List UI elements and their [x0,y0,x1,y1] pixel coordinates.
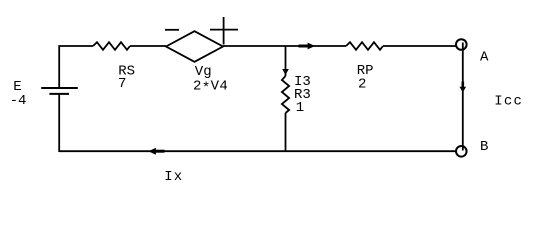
minus polarity mark [165,29,179,31]
svg-text:-4: -4 [10,93,27,109]
value 1 [296,100,304,116]
current arrow on top wire [299,43,316,50]
current arrow Ix [148,148,164,155]
wire Vg to RP [223,45,346,47]
plus polarity mark [210,17,238,45]
label I3 [294,74,311,90]
label Ix [164,169,183,185]
battery E short plate [49,93,69,95]
value 2*V4 [193,78,228,96]
dependent source Vg (diamond) [166,31,223,62]
resistor RS [93,42,130,50]
svg-text:1: 1 [296,100,304,116]
wire RS to dependent source Vg [130,45,166,47]
label RS [118,64,135,80]
bottom wire [59,150,455,152]
wire top-left from battery up and right to RS [59,46,93,88]
current arrow Icc [460,82,467,93]
value -4 [10,93,27,109]
wire terminal A to terminal B [462,43,464,151]
svg-text:2: 2 [358,76,366,92]
svg-text:A: A [480,50,489,66]
value 2 [358,76,366,92]
label RP [357,63,374,79]
wire R3 to bottom [285,113,287,152]
resistor R3 [282,76,289,113]
label R3 [294,87,311,103]
svg-text:Icc: Icc [494,93,523,109]
wire node to R3 branch [285,46,287,76]
svg-text:Ix: Ix [164,169,183,185]
terminal A [456,39,467,50]
terminal B [456,146,467,157]
label B [480,139,488,155]
battery E long plate [41,87,78,89]
current arrow I3 [282,69,289,75]
value 7 [118,76,126,92]
wire bottom-left up to battery [58,94,60,152]
label Vg [195,64,212,80]
wire RP to terminal A [383,45,456,47]
label A [480,50,489,66]
label E [13,79,21,95]
label Icc [494,93,523,109]
resistor RP [346,42,383,50]
svg-text:7: 7 [118,76,126,92]
svg-text:B: B [480,139,488,155]
svg-text:Vg: Vg [195,64,212,80]
svg-text:2*V4: 2*V4 [193,78,228,96]
